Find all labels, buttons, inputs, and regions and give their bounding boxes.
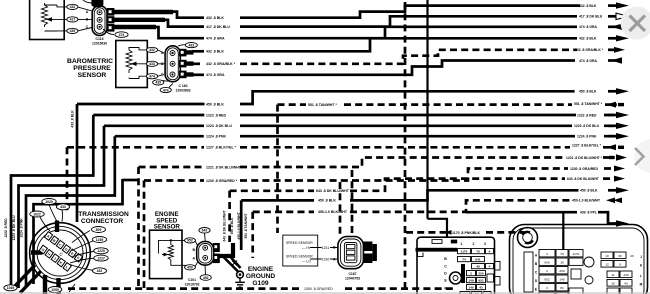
svg-text:551 .8 TAN/WHT *: 551 .8 TAN/WHT * [308, 103, 338, 107]
svg-text:690: 690 [544, 261, 549, 265]
svg-text:12: 12 [605, 263, 609, 267]
svg-text:452: 452 [203, 276, 209, 280]
svg-text:149: 149 [468, 279, 473, 283]
svg-text:1170: 1170 [461, 250, 468, 254]
svg-text:1230: 1230 [322, 257, 330, 261]
svg-text:1227 .8 BLK/YEL *: 1227 .8 BLK/YEL * [572, 144, 602, 148]
svg-text:474 .8 GRA: 474 .8 GRA [206, 37, 225, 41]
svg-text:1223 .8 DK BLU: 1223 .8 DK BLU [206, 124, 232, 128]
svg-text:250: 250 [559, 269, 564, 273]
svg-text:J: J [640, 255, 642, 259]
svg-text:1231: 1231 [322, 246, 330, 250]
svg-text:450 .8 BLK: 450 .8 BLK [580, 189, 598, 193]
svg-text:450: 450 [187, 266, 193, 270]
svg-text:1022: 1022 [33, 212, 41, 216]
svg-text:4: 4 [546, 252, 548, 256]
svg-text:643: 643 [202, 229, 208, 233]
svg-text:E: E [535, 288, 537, 292]
svg-text:12019792: 12019792 [184, 282, 199, 286]
svg-text:417 .8 DK BLU: 417 .8 DK BLU [579, 15, 603, 19]
svg-text:1020: 1020 [45, 200, 53, 204]
svg-text:643 .8 DK BLU/WHT: 643 .8 DK BLU/WHT [316, 189, 350, 193]
svg-text:— LO: — LO [302, 260, 311, 264]
svg-text:36: 36 [560, 261, 564, 265]
svg-text:3: 3 [484, 242, 486, 246]
svg-text:43: 43 [624, 282, 628, 286]
svg-text:C118: C118 [96, 37, 104, 41]
svg-text:1050 .8 GRA/RED: 1050 .8 GRA/RED [304, 287, 333, 291]
svg-text:1049: 1049 [7, 286, 15, 290]
svg-text:551 .8 TAN/WHT *: 551 .8 TAN/WHT * [574, 102, 603, 106]
svg-text:474: 474 [163, 88, 169, 92]
svg-text:952: 952 [478, 279, 483, 283]
svg-text:L: L [640, 274, 642, 278]
svg-text:417: 417 [70, 18, 76, 22]
svg-text:26: 26 [630, 254, 634, 258]
svg-text:433 .8 BLK: 433 .8 BLK [71, 110, 75, 128]
svg-text:BAROMETRIC: BAROMETRIC [67, 58, 113, 65]
svg-text:2: 2 [546, 269, 548, 273]
svg-text:1: 1 [461, 242, 463, 246]
svg-text:1223 .8 DK BLU: 1223 .8 DK BLU [574, 124, 600, 128]
svg-text:1224 .8 PNK: 1224 .8 PNK [19, 218, 23, 238]
svg-text:439: 439 [70, 29, 76, 33]
svg-text:49: 49 [476, 265, 480, 269]
svg-text:3: 3 [546, 286, 548, 290]
svg-text:432: 432 [149, 48, 155, 52]
svg-text:SENSOR: SENSOR [78, 72, 107, 79]
svg-text:— HI: — HI [302, 246, 310, 250]
svg-text:1230 .8 GRA/RED: 1230 .8 GRA/RED [570, 167, 598, 171]
svg-text:PRESSURE: PRESSURE [73, 65, 111, 72]
svg-text:2: 2 [470, 272, 472, 276]
svg-text:43: 43 [479, 286, 483, 290]
svg-text:ENGINE: ENGINE [248, 266, 274, 273]
svg-text:432 .8 GRA/BLK *: 432 .8 GRA/BLK * [575, 48, 604, 52]
svg-text:1227 .8 BLK/YEL *: 1227 .8 BLK/YEL * [206, 146, 237, 150]
svg-text:9: 9 [619, 263, 621, 267]
svg-text:G109: G109 [252, 280, 268, 287]
svg-text:12003833: 12003833 [175, 88, 190, 92]
svg-text:CONNECTOR: CONNECTOR [81, 218, 124, 225]
svg-text:11: 11 [611, 273, 614, 277]
svg-text:952: 952 [187, 239, 193, 243]
svg-text:1224 .8 PNK: 1224 .8 PNK [206, 135, 227, 139]
svg-text:2: 2 [473, 242, 475, 246]
svg-text:433: 433 [60, 205, 66, 209]
svg-text:952: 952 [544, 278, 549, 282]
svg-text:432 .8 BLK: 432 .8 BLK [206, 16, 224, 20]
svg-text:30: 30 [618, 254, 622, 258]
svg-text:1222 .8 RED: 1222 .8 RED [4, 218, 8, 238]
svg-text:1239: 1239 [96, 238, 104, 242]
svg-text:439: 439 [155, 81, 161, 85]
svg-text:M: M [640, 283, 643, 287]
svg-text:643 .8 DK BLU/WHT: 643 .8 DK BLU/WHT [223, 211, 227, 242]
svg-text:432 .8 GRA/BLK *: 432 .8 GRA/BLK * [206, 62, 236, 66]
svg-text:433: 433 [149, 62, 155, 66]
svg-text:1223 .8 DK BLU: 1223 .8 DK BLU [12, 215, 16, 241]
svg-text:1222 .8 RED: 1222 .8 RED [206, 113, 227, 117]
svg-text:474 .8 GRA: 474 .8 GRA [579, 25, 597, 29]
svg-text:1229: 1229 [97, 249, 105, 253]
svg-text:643 .8 DK BLU/WHT: 643 .8 DK BLU/WHT [567, 177, 600, 181]
svg-text:4: 4 [489, 265, 491, 269]
svg-text:C167: C167 [348, 272, 356, 276]
svg-text:941: 941 [475, 258, 480, 262]
svg-text:432 .8 BLK: 432 .8 BLK [579, 4, 597, 8]
svg-text:474 .8 GRA: 474 .8 GRA [206, 73, 225, 77]
svg-text:TRANSMISSION: TRANSMISSION [78, 211, 129, 218]
svg-text:1221 .8 DK BLU/WHT *: 1221 .8 DK BLU/WHT * [566, 156, 603, 160]
svg-text:450 .8 BLK: 450 .8 BLK [579, 90, 597, 94]
svg-text:76: 76 [560, 252, 564, 256]
svg-text:1227: 1227 [97, 257, 105, 261]
svg-text:10: 10 [605, 254, 609, 258]
svg-text:140: 140 [559, 278, 564, 282]
svg-text:432 .8 BLK: 432 .8 BLK [579, 37, 597, 41]
svg-text:140: 140 [468, 286, 473, 290]
svg-text:474: 474 [119, 33, 125, 37]
svg-text:1222 .8 RED: 1222 .8 RED [577, 113, 597, 117]
svg-text:417 .8 DK BLU: 417 .8 DK BLU [206, 25, 230, 29]
svg-text:474 .8 GRA: 474 .8 GRA [579, 59, 597, 63]
svg-text:432 .8 BLK: 432 .8 BLK [206, 50, 224, 54]
svg-text:C 164: C 164 [178, 84, 187, 88]
svg-text:1170: 1170 [573, 252, 580, 256]
svg-text:450-1.0 BLK/WHT: 450-1.0 BLK/WHT [572, 199, 601, 203]
svg-text:83: 83 [560, 286, 564, 290]
svg-text:SPEED SENSOR: SPEED SENSOR [286, 241, 313, 245]
svg-text:250: 250 [478, 272, 483, 276]
svg-text:474: 474 [149, 75, 155, 79]
svg-text:74: 74 [462, 258, 466, 262]
svg-text:440: 440 [623, 273, 628, 277]
svg-text:12015630: 12015630 [92, 42, 107, 46]
svg-text:450-1.0 BLK/WHT: 450-1.0 BLK/WHT [318, 210, 348, 214]
svg-text:551 .8 TAN/WHT: 551 .8 TAN/WHT [244, 213, 248, 238]
svg-text:9: 9 [489, 250, 491, 254]
svg-text:GROUND: GROUND [246, 273, 276, 280]
svg-text:10: 10 [611, 282, 615, 286]
svg-text:1050: 1050 [51, 288, 59, 292]
svg-text:509: 509 [96, 228, 102, 232]
svg-text:450 .8 BLK: 450 .8 BLK [318, 199, 336, 203]
svg-text:SPEED SENSOR: SPEED SENSOR [286, 255, 313, 259]
svg-text:79: 79 [476, 250, 480, 254]
svg-text:1230 .8 GRA/RED *: 1230 .8 GRA/RED * [206, 179, 238, 183]
svg-text:1224 .8 PNK: 1224 .8 PNK [577, 135, 597, 139]
svg-text:1221 .8 DK BLU/WHT *: 1221 .8 DK BLU/WHT * [206, 165, 244, 169]
svg-text:450 .8 BLK: 450 .8 BLK [206, 102, 224, 106]
svg-text:432: 432 [70, 5, 76, 9]
svg-text:1170 .8 PNK/BLK: 1170 .8 PNK/BLK [452, 231, 480, 235]
svg-text:433: 433 [188, 43, 194, 47]
svg-text:432: 432 [97, 269, 103, 273]
svg-text:12040753: 12040753 [345, 276, 360, 280]
svg-text:439 .8 PPL: 439 .8 PPL [580, 211, 597, 215]
